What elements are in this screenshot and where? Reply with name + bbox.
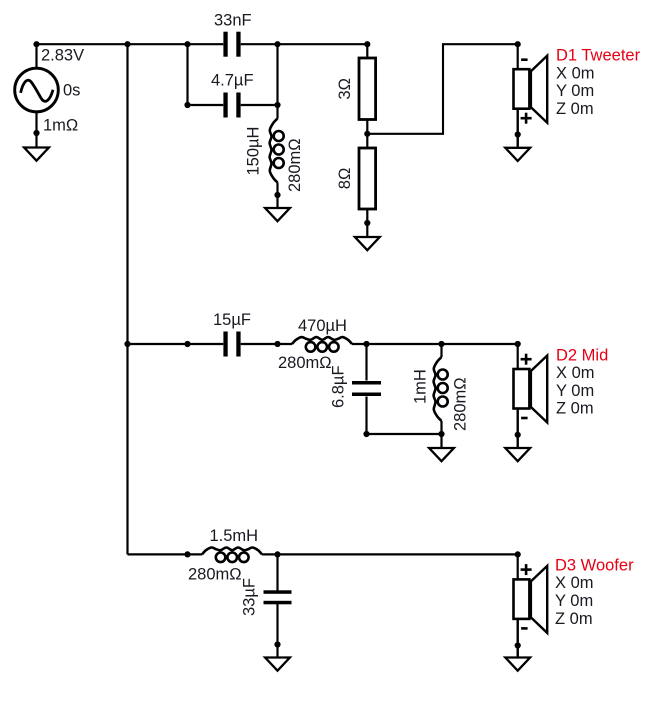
svg-text:X 0m: X 0m (556, 364, 595, 382)
svg-text:D2 Mid: D2 Mid (556, 346, 608, 364)
svg-text:3Ω: 3Ω (336, 78, 354, 100)
svg-text:Z 0m: Z 0m (555, 610, 593, 628)
svg-text:1.5mH: 1.5mH (210, 527, 259, 545)
svg-text:D3 Woofer: D3 Woofer (555, 556, 634, 574)
svg-text:Y 0m: Y 0m (556, 382, 594, 400)
svg-text:4.7µF: 4.7µF (211, 72, 254, 90)
svg-text:8Ω: 8Ω (336, 168, 354, 190)
svg-text:280mΩ: 280mΩ (452, 377, 470, 431)
svg-text:6.8µF: 6.8µF (329, 365, 347, 408)
svg-text:1mΩ: 1mΩ (43, 117, 78, 135)
svg-text:1mH: 1mH (412, 369, 430, 404)
svg-text:Y 0m: Y 0m (555, 592, 593, 610)
svg-text:33nF: 33nF (214, 12, 252, 30)
svg-text:X 0m: X 0m (556, 64, 595, 82)
svg-text:D1 Tweeter: D1 Tweeter (556, 47, 641, 65)
svg-text:33µF: 33µF (240, 578, 258, 616)
svg-text:2.83V: 2.83V (41, 47, 84, 65)
svg-text:150µH: 150µH (244, 127, 262, 176)
svg-text:470µH: 470µH (298, 317, 347, 335)
svg-text:280mΩ: 280mΩ (188, 566, 242, 584)
svg-text:Y 0m: Y 0m (556, 82, 594, 100)
svg-text:280mΩ: 280mΩ (286, 138, 304, 192)
svg-text:15µF: 15µF (213, 311, 251, 329)
svg-text:X 0m: X 0m (555, 574, 594, 592)
svg-text:0s: 0s (63, 82, 80, 100)
svg-text:280mΩ: 280mΩ (278, 354, 332, 372)
svg-text:Z 0m: Z 0m (556, 400, 594, 418)
svg-text:Z 0m: Z 0m (556, 100, 594, 118)
